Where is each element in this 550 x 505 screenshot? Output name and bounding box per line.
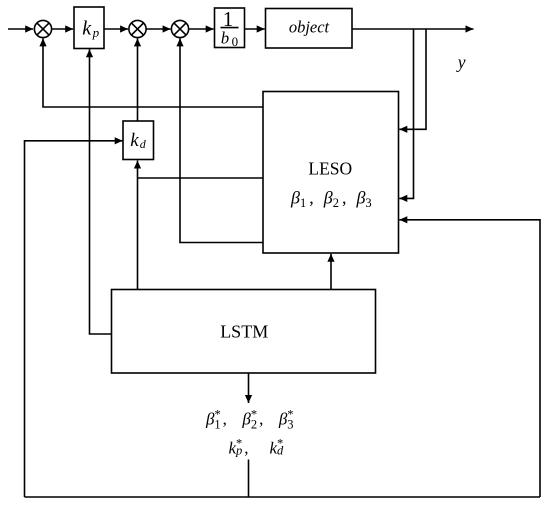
- block kp: [74, 7, 104, 49]
- wire: S1 to kp: [52, 28, 74, 30]
- wire: object output y: [352, 28, 474, 30]
- wire: kd output up into S2: [137, 38, 139, 121]
- summing junction S2: [129, 20, 146, 37]
- wire: LSTM betas up into LESO: [330, 254, 332, 290]
- wire: LESO z1 feedback to S1: [43, 38, 263, 107]
- svg-text:LSTM: LSTM: [220, 322, 268, 342]
- wire: LESO z3 feedback to S3: [180, 38, 263, 242]
- wire: S3 to 1/b0 block: [189, 28, 214, 30]
- wire: LESO z2 output to kd line: [138, 177, 264, 179]
- summing junction S1: [34, 20, 51, 37]
- wire: LSTM kp-parameter up into kp: [90, 49, 112, 334]
- wire: bottom-left loop into kd: [25, 141, 123, 497]
- wire: S2 to S3: [146, 28, 171, 30]
- block object: [266, 9, 353, 49]
- block 1/b0: [215, 8, 245, 48]
- svg-text:LESO: LESO: [308, 159, 352, 179]
- svg-text:1: 1: [223, 7, 234, 31]
- block kd: [123, 121, 154, 160]
- wire: parameter line down to bottom bus: [248, 460, 250, 498]
- block LSTM: [112, 290, 376, 374]
- wire: output tap down to LESO input (inner): [399, 29, 413, 198]
- wire: bottom-right loop into LESO: [399, 220, 540, 497]
- wire: bottom bus: [25, 496, 541, 498]
- svg-text:y: y: [456, 52, 466, 72]
- wire: input reference into first summing junction: [8, 28, 33, 30]
- wire: LSTM kd-parameter up into kd: [137, 161, 139, 290]
- svg-text:object: object: [289, 17, 330, 36]
- svg-text:k*p,k*d: k*p,k*d: [229, 437, 284, 458]
- wire: kp to S2: [104, 28, 128, 30]
- wire: output tap down to LESO input (outer): [399, 29, 426, 129]
- wire: LSTM parameter output arrow down: [248, 373, 250, 403]
- summing junction S3: [171, 20, 188, 37]
- block LESO: [263, 92, 399, 254]
- fraction bar of 1/b0: [221, 27, 239, 29]
- wire: 1/b0 to object: [245, 28, 265, 30]
- svg-text:β*1,β*2,β*3: β*1,β*2,β*3: [205, 408, 294, 432]
